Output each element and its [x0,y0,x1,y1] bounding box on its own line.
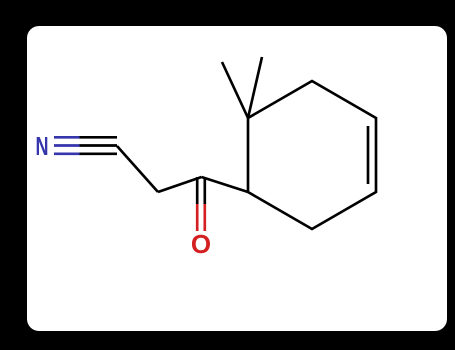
svg-text:O: O [191,229,211,259]
triple bond C#N, blue half near N [54,137,80,154]
C=O double bond, red half near O [197,204,205,231]
bond CH2-C(=O) (up-right diagonal) [158,177,202,192]
methyl bond 2 (up-right from ring carbon) [248,57,262,118]
svg-text:N: N [36,131,49,161]
methyl bond 1 (up-left from ring carbon) [222,62,248,118]
bond C-CH2 (down-right diagonal) [117,146,158,192]
six-membered ring [248,81,376,229]
ring C=C inner double bond line (right side) [367,126,370,184]
triple bond C#N, black half near C [80,137,118,154]
bond carbonyl C to ring ipso carbon [202,177,249,192]
C=O double bond, black half near carbonyl C [197,177,205,204]
